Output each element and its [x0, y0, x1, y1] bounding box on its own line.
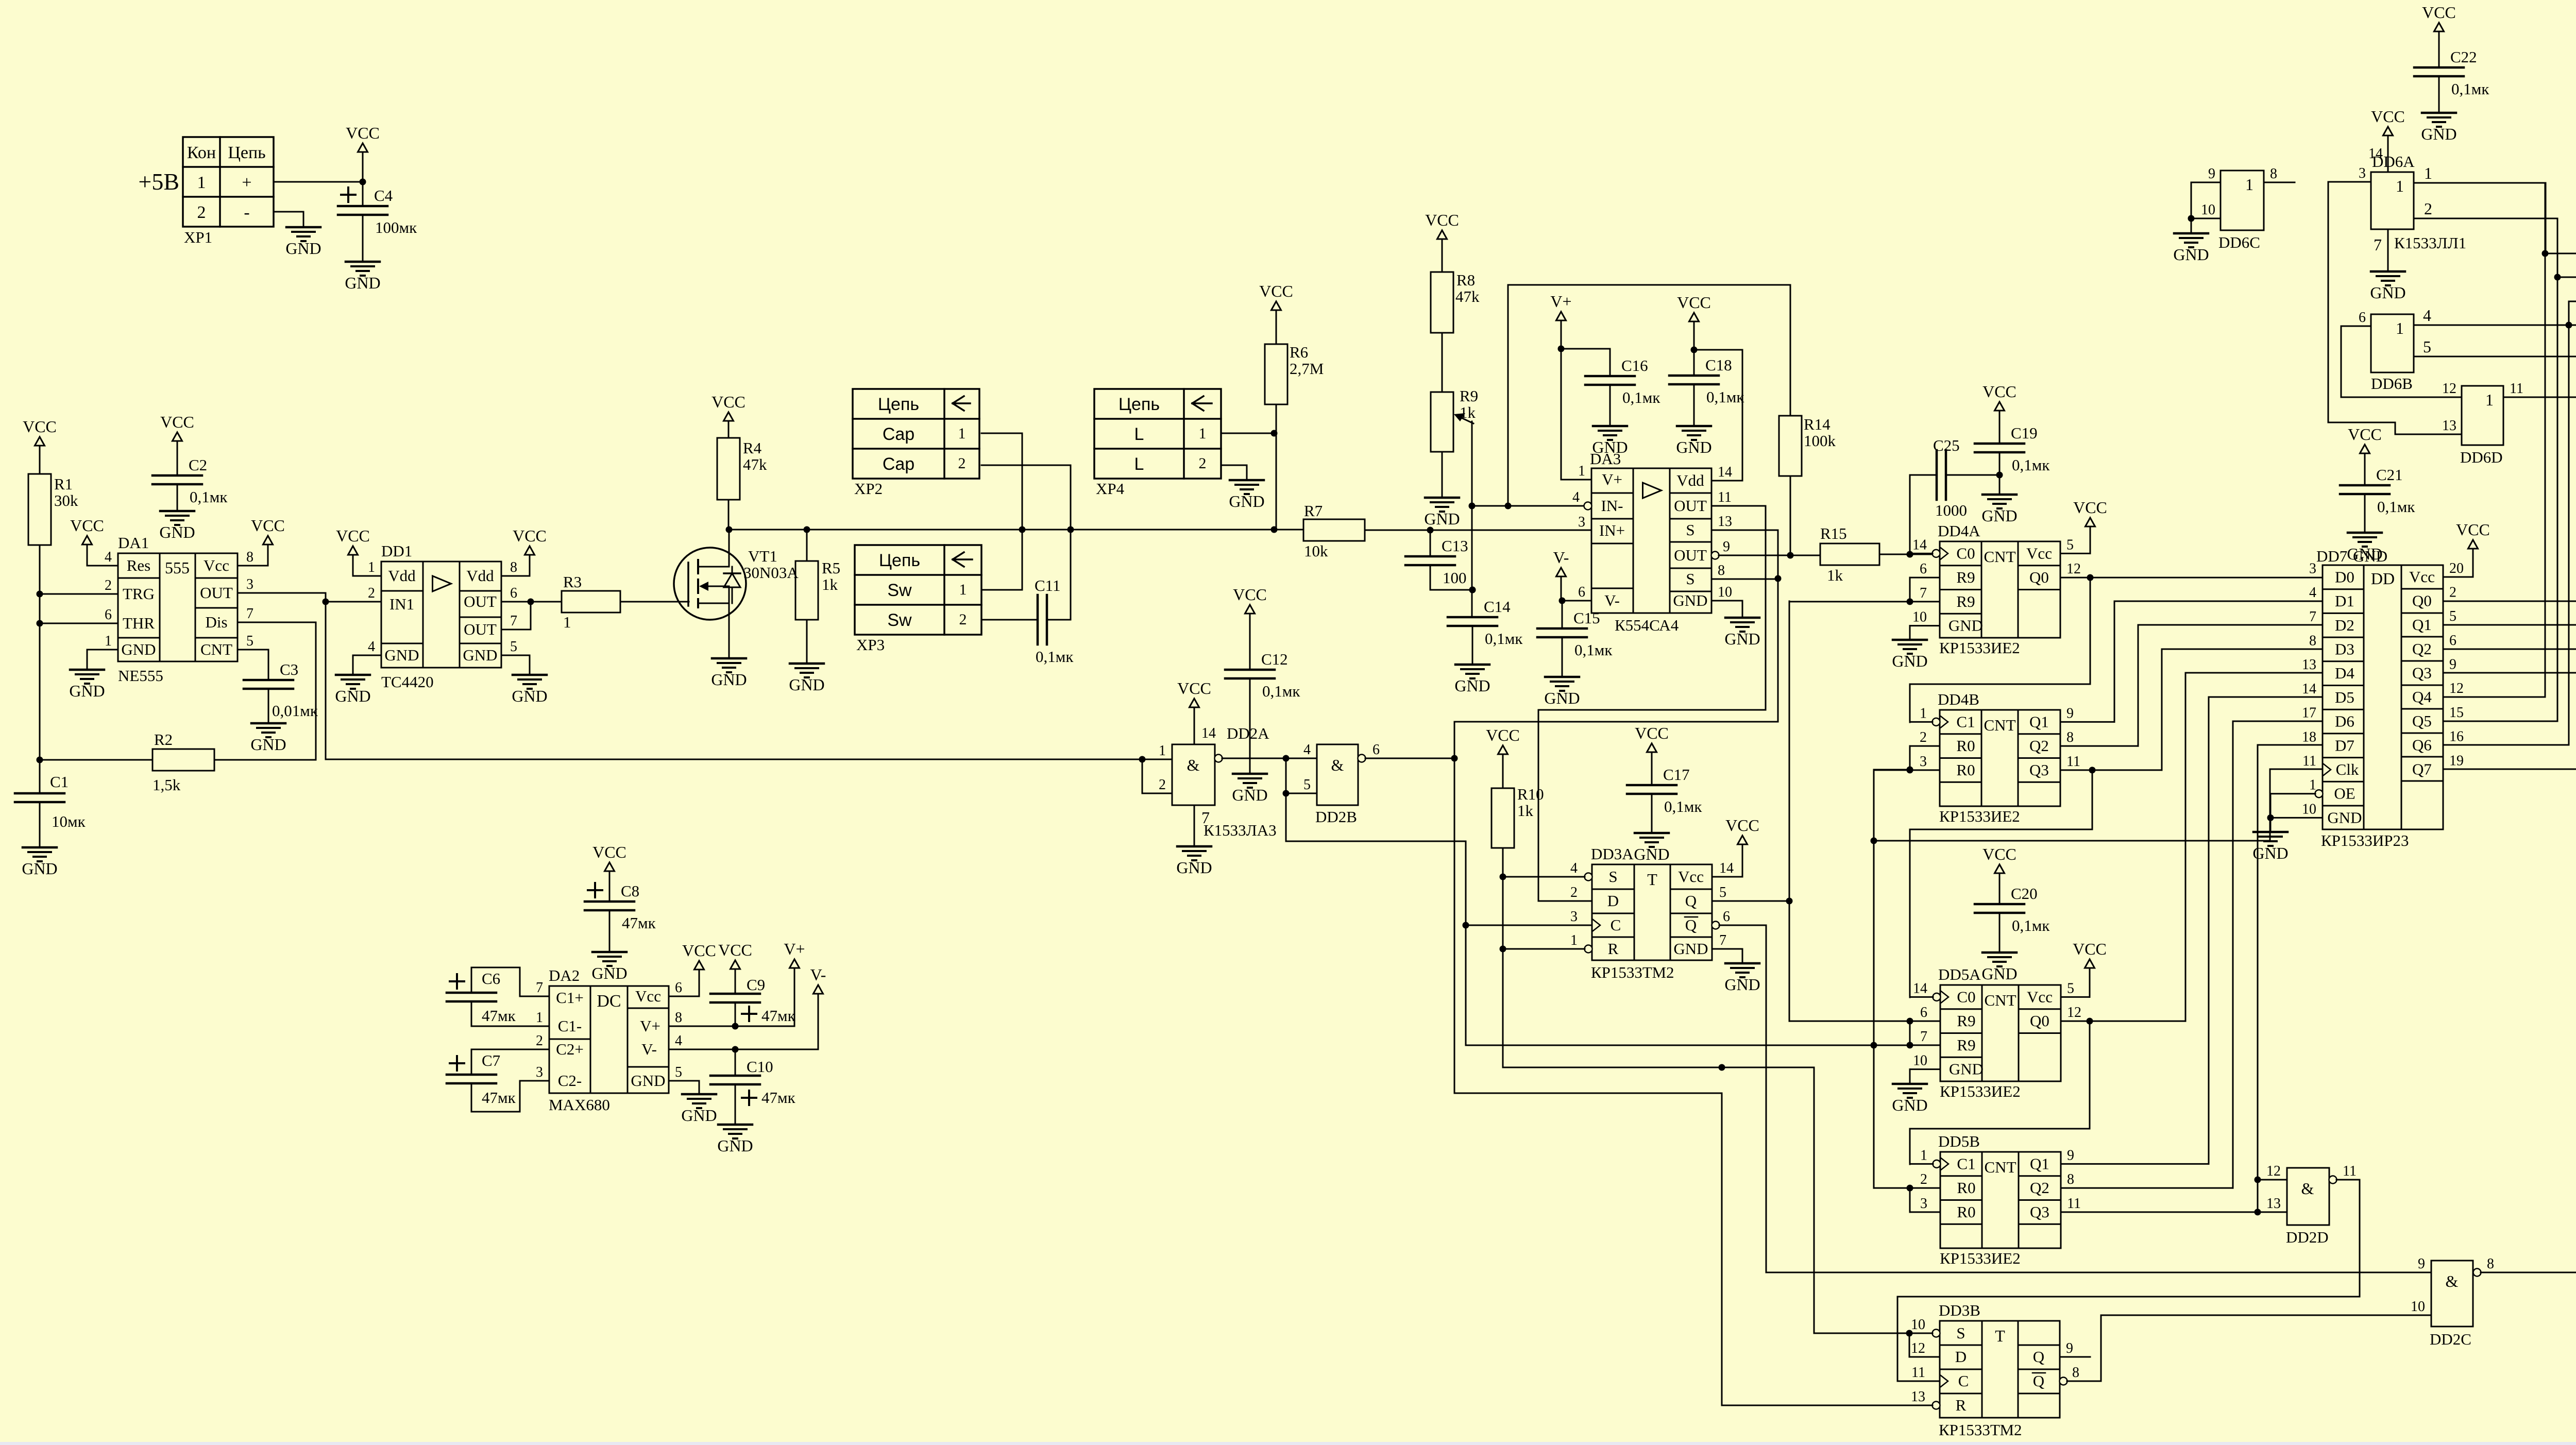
svg-text:DD6D: DD6D — [2460, 448, 2503, 466]
svg-text:R4: R4 — [743, 439, 762, 457]
svg-text:GND: GND — [1634, 845, 1669, 863]
svg-text:C0: C0 — [1957, 988, 1975, 1006]
svg-text:8: 8 — [2066, 729, 2074, 745]
svg-text:2: 2 — [197, 203, 206, 222]
svg-text:8: 8 — [2309, 633, 2316, 649]
svg-text:1: 1 — [1578, 463, 1585, 479]
svg-text:R3: R3 — [563, 573, 582, 591]
svg-text:Vcc: Vcc — [2027, 988, 2053, 1006]
svg-text:6: 6 — [1578, 584, 1585, 600]
svg-text:C14: C14 — [1484, 598, 1511, 616]
svg-text:10мк: 10мк — [52, 812, 86, 830]
svg-text:DC: DC — [597, 992, 621, 1011]
svg-text:4: 4 — [368, 639, 375, 655]
svg-text:0,1мк: 0,1мк — [1262, 682, 1300, 700]
svg-text:R9: R9 — [1956, 568, 1975, 586]
svg-text:4: 4 — [1303, 742, 1311, 758]
svg-text:GND: GND — [22, 859, 57, 878]
svg-text:R1: R1 — [54, 475, 73, 493]
svg-text:VCC: VCC — [1725, 816, 1759, 835]
svg-text:5: 5 — [246, 633, 253, 649]
svg-text:D0: D0 — [2335, 568, 2354, 586]
svg-text:Cap: Cap — [883, 454, 914, 474]
svg-text:10: 10 — [2201, 202, 2215, 218]
svg-text:Q3: Q3 — [2029, 761, 2049, 779]
svg-text:КР1533ИЕ2: КР1533ИЕ2 — [1939, 807, 2020, 825]
svg-text:6: 6 — [2359, 310, 2366, 326]
svg-text:R9: R9 — [1460, 387, 1478, 405]
svg-text:47мк: 47мк — [482, 1007, 516, 1025]
svg-text:GND: GND — [1232, 786, 1267, 804]
svg-text:3: 3 — [1920, 754, 1927, 770]
svg-text:T: T — [1647, 870, 1657, 889]
svg-text:CNT: CNT — [1984, 716, 2016, 734]
svg-text:VCC: VCC — [1233, 585, 1267, 604]
svg-text:К1533ЛА3: К1533ЛА3 — [1204, 821, 1277, 839]
svg-text:47k: 47k — [743, 455, 767, 473]
svg-text:12: 12 — [2266, 1163, 2281, 1179]
svg-text:GND: GND — [69, 682, 105, 700]
svg-text:6: 6 — [510, 585, 517, 601]
svg-text:C19: C19 — [2011, 424, 2038, 442]
svg-text:1: 1 — [105, 633, 112, 649]
svg-text:555: 555 — [165, 558, 190, 577]
svg-text:GND: GND — [250, 735, 286, 754]
svg-text:GND: GND — [1229, 492, 1264, 511]
svg-text:100: 100 — [1443, 569, 1467, 587]
svg-text:0,1мк: 0,1мк — [1574, 641, 1613, 659]
svg-text:GND: GND — [1454, 676, 1490, 695]
svg-text:VCC: VCC — [2073, 498, 2107, 517]
svg-text:12: 12 — [1911, 1340, 1925, 1356]
svg-text:Res: Res — [127, 556, 151, 574]
svg-text:10: 10 — [1718, 584, 1732, 600]
svg-text:47мк: 47мк — [482, 1089, 516, 1107]
svg-text:13: 13 — [2302, 657, 2316, 673]
svg-text:13: 13 — [2266, 1196, 2281, 1212]
svg-text:VCC: VCC — [682, 941, 716, 960]
svg-text:11: 11 — [1718, 489, 1732, 505]
svg-text:R: R — [1608, 940, 1619, 958]
svg-text:DD5B: DD5B — [1938, 1132, 1980, 1150]
svg-text:CNT: CNT — [1985, 1158, 2016, 1176]
svg-text:MAX680: MAX680 — [549, 1096, 610, 1114]
svg-text:&: & — [1331, 756, 1344, 774]
svg-text:2: 2 — [1920, 729, 1927, 745]
svg-text:V+: V+ — [640, 1017, 660, 1035]
svg-text:D3: D3 — [2335, 640, 2354, 658]
svg-text:2: 2 — [536, 1033, 543, 1049]
svg-text:2: 2 — [105, 577, 112, 593]
svg-text:GND: GND — [335, 687, 370, 705]
svg-text:GND: GND — [789, 675, 824, 694]
svg-text:12: 12 — [2066, 561, 2081, 577]
svg-text:VCC: VCC — [2348, 425, 2382, 444]
svg-text:Cap: Cap — [883, 424, 914, 444]
svg-text:DD6C: DD6C — [2218, 233, 2260, 251]
svg-text:Цепь: Цепь — [228, 143, 265, 162]
svg-text:R8: R8 — [1456, 271, 1475, 289]
svg-text:Q2: Q2 — [2412, 640, 2432, 658]
svg-text:3: 3 — [2359, 165, 2366, 181]
svg-text:47k: 47k — [1455, 287, 1480, 305]
svg-text:4: 4 — [1572, 489, 1580, 505]
svg-text:1: 1 — [1920, 705, 1927, 721]
svg-text:GND: GND — [591, 964, 627, 982]
svg-text:DD: DD — [2371, 569, 2395, 588]
svg-text:Vcc: Vcc — [204, 556, 229, 574]
svg-text:GND: GND — [2252, 844, 2288, 862]
svg-text:Q1: Q1 — [2030, 1154, 2049, 1172]
svg-text:D: D — [1607, 892, 1619, 910]
svg-text:VCC: VCC — [1982, 845, 2016, 863]
svg-text:16: 16 — [2449, 729, 2464, 745]
svg-text:C2-: C2- — [558, 1072, 582, 1090]
svg-text:NE555: NE555 — [118, 667, 163, 685]
svg-text:2: 2 — [959, 611, 967, 628]
svg-text:Q0: Q0 — [2029, 568, 2049, 586]
svg-text:IN-: IN- — [1601, 497, 1623, 515]
svg-text:C20: C20 — [2011, 885, 2038, 903]
svg-text:0,01мк: 0,01мк — [272, 702, 318, 720]
svg-text:DD2A: DD2A — [1227, 724, 1269, 742]
svg-text:C13: C13 — [1442, 537, 1468, 555]
svg-text:10: 10 — [1913, 1053, 1927, 1069]
svg-text:C0: C0 — [1956, 544, 1975, 562]
svg-text:C17: C17 — [1663, 766, 1690, 784]
svg-text:L: L — [1134, 454, 1144, 474]
svg-text:IN1: IN1 — [389, 595, 414, 613]
svg-text:GND: GND — [1948, 617, 1983, 635]
svg-text:R9: R9 — [1956, 592, 1975, 610]
svg-text:V-: V- — [641, 1040, 657, 1058]
svg-text:Q1: Q1 — [2029, 712, 2049, 730]
svg-text:VCC: VCC — [2456, 520, 2490, 539]
svg-text:S: S — [1608, 868, 1617, 886]
svg-text:DD1: DD1 — [381, 542, 412, 560]
svg-text:DD5A: DD5A — [1938, 965, 1981, 983]
svg-text:GND: GND — [384, 646, 419, 664]
svg-text:5: 5 — [2066, 537, 2074, 553]
svg-text:0,1мк: 0,1мк — [1664, 797, 1702, 815]
svg-text:12: 12 — [2067, 1005, 2081, 1021]
svg-text:1: 1 — [368, 559, 375, 575]
svg-text:R7: R7 — [1304, 502, 1323, 520]
svg-text:GND: GND — [1892, 652, 1927, 670]
svg-text:100мк: 100мк — [375, 218, 417, 236]
svg-text:VCC: VCC — [1177, 679, 1211, 698]
svg-text:9: 9 — [2067, 1147, 2074, 1163]
svg-text:OUT: OUT — [464, 620, 497, 638]
svg-text:Цепь: Цепь — [878, 395, 919, 414]
svg-text:15: 15 — [2449, 705, 2464, 721]
svg-text:D5: D5 — [2335, 688, 2354, 706]
svg-text:Q5: Q5 — [2412, 712, 2432, 730]
svg-text:C: C — [1611, 916, 1621, 934]
svg-text:D2: D2 — [2335, 616, 2354, 634]
svg-text:VCC: VCC — [70, 516, 104, 535]
svg-text:Q: Q — [1685, 916, 1697, 934]
svg-text:Q0: Q0 — [2412, 591, 2432, 609]
svg-text:R10: R10 — [1517, 785, 1544, 803]
svg-text:7: 7 — [1920, 585, 1927, 601]
svg-text:10: 10 — [1912, 609, 1927, 625]
svg-text:C10: C10 — [747, 1058, 773, 1076]
svg-text:6: 6 — [1372, 742, 1380, 758]
svg-text:Sw: Sw — [887, 610, 912, 630]
svg-text:C12: C12 — [1261, 650, 1288, 668]
svg-text:9: 9 — [2449, 657, 2456, 673]
svg-text:VT1: VT1 — [748, 547, 777, 565]
svg-text:C22: C22 — [2450, 48, 2477, 66]
svg-text:GND: GND — [681, 1106, 717, 1125]
svg-text:Vdd: Vdd — [388, 567, 416, 585]
svg-text:DD7: DD7 — [2316, 547, 2347, 565]
svg-text:14: 14 — [1719, 860, 1734, 876]
svg-text:TRG: TRG — [123, 585, 155, 603]
svg-text:DD3B: DD3B — [1939, 1301, 1980, 1319]
svg-text:DA2: DA2 — [549, 966, 580, 984]
svg-text:КР1533ТМ2: КР1533ТМ2 — [1591, 963, 1674, 981]
svg-text:1: 1 — [1199, 425, 1207, 442]
svg-text:R0: R0 — [1957, 1179, 1975, 1197]
svg-text:C2: C2 — [189, 456, 207, 474]
svg-text:Q: Q — [1685, 892, 1697, 910]
svg-text:C1: C1 — [1956, 712, 1975, 730]
svg-text:1: 1 — [2396, 177, 2404, 195]
svg-text:10: 10 — [2411, 1299, 2425, 1315]
svg-text:GND: GND — [463, 646, 497, 664]
svg-text:1: 1 — [2424, 164, 2432, 182]
svg-text:1k: 1k — [822, 575, 838, 593]
svg-text:К554СА4: К554СА4 — [1615, 616, 1679, 634]
svg-text:L: L — [1134, 424, 1144, 444]
svg-text:DD4B: DD4B — [1938, 690, 1979, 708]
svg-text:C4: C4 — [374, 186, 393, 205]
svg-text:R0: R0 — [1956, 761, 1975, 779]
svg-text:5: 5 — [1303, 777, 1311, 793]
svg-text:GND: GND — [1424, 509, 1460, 528]
svg-text:C: C — [1958, 1372, 1969, 1390]
svg-text:20: 20 — [2449, 560, 2464, 576]
svg-text:Vcc: Vcc — [635, 987, 661, 1005]
svg-text:+: + — [242, 173, 251, 192]
svg-text:&: & — [2446, 1272, 2459, 1290]
svg-text:9: 9 — [2066, 1340, 2073, 1356]
svg-text:GND: GND — [2327, 808, 2362, 826]
svg-text:VCC: VCC — [1635, 724, 1669, 742]
svg-text:GND: GND — [1673, 940, 1708, 958]
svg-text:+5В: +5В — [138, 168, 179, 195]
svg-text:R0: R0 — [1956, 737, 1975, 755]
svg-text:4: 4 — [1570, 860, 1578, 876]
svg-text:11: 11 — [2066, 754, 2080, 770]
svg-text:2: 2 — [1570, 885, 1578, 900]
svg-text:100k: 100k — [1804, 432, 1836, 450]
svg-text:OUT: OUT — [1674, 497, 1707, 515]
svg-text:Q1: Q1 — [2412, 616, 2432, 634]
svg-text:GND: GND — [285, 239, 321, 258]
svg-text:10: 10 — [2302, 801, 2316, 817]
svg-text:3: 3 — [2309, 560, 2316, 576]
svg-text:2: 2 — [1920, 1171, 1927, 1187]
svg-text:2: 2 — [1159, 777, 1166, 793]
svg-text:5: 5 — [510, 639, 517, 655]
svg-text:9: 9 — [1723, 539, 1730, 555]
svg-text:0,1мк: 0,1мк — [2451, 80, 2489, 98]
svg-text:Q4: Q4 — [2412, 688, 2432, 706]
svg-text:VCC: VCC — [336, 526, 370, 545]
svg-text:1: 1 — [2245, 175, 2253, 194]
svg-text:GND: GND — [2347, 545, 2382, 563]
svg-text:4: 4 — [2423, 306, 2431, 325]
svg-text:13: 13 — [2442, 418, 2456, 434]
svg-text:7: 7 — [1719, 932, 1726, 948]
svg-text:8: 8 — [2487, 1256, 2494, 1272]
svg-text:1: 1 — [2309, 777, 2316, 793]
svg-text:V-: V- — [810, 965, 826, 984]
svg-text:0,1мк: 0,1мк — [2377, 498, 2415, 516]
svg-text:13: 13 — [1718, 514, 1732, 530]
svg-text:0,1мк: 0,1мк — [1706, 388, 1744, 406]
svg-text:S: S — [1956, 1324, 1965, 1342]
svg-text:Q2: Q2 — [2029, 737, 2049, 755]
svg-text:VCC: VCC — [2371, 107, 2405, 126]
svg-text:Q0: Q0 — [2030, 1012, 2049, 1030]
svg-text:T: T — [1995, 1327, 2005, 1345]
svg-text:5: 5 — [675, 1064, 682, 1080]
svg-text:47мк: 47мк — [761, 1089, 796, 1107]
svg-text:VCC: VCC — [251, 516, 285, 535]
svg-text:DD3A: DD3A — [1591, 845, 1634, 863]
svg-text:11: 11 — [1911, 1365, 1925, 1381]
svg-text:1: 1 — [563, 613, 571, 631]
svg-text:OUT: OUT — [1674, 546, 1707, 564]
svg-text:C2+: C2+ — [556, 1040, 584, 1058]
svg-text:R2: R2 — [154, 730, 173, 749]
svg-text:&: & — [2301, 1179, 2314, 1198]
svg-text:D4: D4 — [2335, 664, 2354, 682]
svg-text:7: 7 — [1920, 1029, 1927, 1045]
svg-text:R5: R5 — [822, 559, 840, 577]
svg-text:GND: GND — [631, 1072, 665, 1090]
svg-text:1: 1 — [2396, 319, 2404, 337]
svg-text:DD2C: DD2C — [2430, 1330, 2471, 1348]
svg-text:GND: GND — [2173, 245, 2209, 264]
svg-text:R15: R15 — [1820, 524, 1847, 542]
svg-text:30N03A: 30N03A — [743, 564, 799, 582]
svg-text:7: 7 — [246, 606, 253, 622]
svg-text:XP2: XP2 — [854, 480, 883, 498]
svg-text:2: 2 — [2449, 584, 2456, 600]
svg-text:GND: GND — [717, 1136, 753, 1155]
svg-text:11: 11 — [2510, 381, 2523, 397]
svg-text:6: 6 — [1920, 561, 1927, 577]
svg-text:Кон: Кон — [187, 143, 216, 162]
svg-text:3: 3 — [1570, 909, 1578, 925]
svg-text:18: 18 — [2302, 729, 2316, 745]
svg-text:2,7М: 2,7М — [1290, 360, 1324, 378]
svg-text:V-: V- — [1553, 548, 1569, 567]
svg-text:C6: C6 — [482, 970, 500, 988]
svg-text:4: 4 — [675, 1033, 682, 1049]
svg-text:14: 14 — [1913, 980, 1927, 996]
svg-text:OUT: OUT — [464, 592, 497, 610]
svg-text:11: 11 — [2343, 1163, 2357, 1179]
svg-text:7: 7 — [2374, 235, 2382, 254]
svg-text:C1-: C1- — [558, 1017, 582, 1035]
svg-text:11: 11 — [2302, 753, 2316, 769]
svg-text:2: 2 — [1199, 455, 1207, 472]
svg-text:GND: GND — [1949, 1060, 1984, 1078]
svg-text:8: 8 — [246, 549, 253, 565]
svg-text:GND: GND — [2421, 125, 2456, 143]
svg-text:GND: GND — [121, 640, 156, 658]
svg-text:D1: D1 — [2335, 592, 2354, 610]
svg-text:GND: GND — [2370, 283, 2405, 302]
svg-text:0,1мк: 0,1мк — [2012, 916, 2050, 934]
svg-text:8: 8 — [1718, 563, 1725, 579]
svg-text:VCC: VCC — [592, 843, 626, 861]
svg-text:3: 3 — [1578, 514, 1585, 530]
svg-text:GND: GND — [1724, 630, 1760, 648]
svg-text:Vdd: Vdd — [466, 567, 494, 585]
svg-text:VCC: VCC — [513, 526, 547, 545]
svg-text:КР1533ИР23: КР1533ИР23 — [2321, 831, 2409, 849]
svg-text:7: 7 — [2309, 609, 2316, 625]
svg-text:17: 17 — [2302, 705, 2316, 721]
svg-text:GND: GND — [345, 274, 380, 292]
svg-text:4: 4 — [2309, 585, 2316, 601]
svg-text:КР1533ТМ2: КР1533ТМ2 — [1939, 1421, 2022, 1439]
svg-text:TC4420: TC4420 — [381, 673, 434, 691]
svg-text:11: 11 — [2067, 1196, 2081, 1212]
svg-text:6: 6 — [675, 980, 682, 996]
svg-text:THR: THR — [123, 614, 155, 632]
svg-text:1: 1 — [958, 425, 966, 442]
svg-text:R: R — [1956, 1396, 1967, 1414]
svg-text:C15: C15 — [1573, 609, 1600, 627]
svg-text:1000: 1000 — [1935, 501, 1967, 519]
svg-text:GND: GND — [1724, 975, 1760, 994]
svg-text:1k: 1k — [1827, 566, 1843, 584]
svg-text:9: 9 — [2208, 166, 2215, 182]
svg-text:GND: GND — [1676, 438, 1711, 456]
svg-text:XP3: XP3 — [856, 636, 885, 654]
svg-text:-: - — [244, 203, 249, 222]
svg-text:2: 2 — [368, 585, 375, 601]
svg-text:8: 8 — [510, 559, 517, 575]
svg-text:C11: C11 — [1035, 576, 1061, 594]
svg-text:R9: R9 — [1957, 1012, 1975, 1030]
svg-text:КР1533ИЕ2: КР1533ИЕ2 — [1939, 639, 2020, 657]
svg-text:V+: V+ — [1602, 470, 1622, 488]
svg-text:GND: GND — [1981, 506, 2017, 525]
svg-text:30k: 30k — [54, 491, 78, 509]
svg-text:XP1: XP1 — [184, 228, 212, 246]
svg-text:C21: C21 — [2376, 466, 2403, 484]
svg-text:К1533ЛЛ1: К1533ЛЛ1 — [2394, 234, 2466, 252]
svg-text:19: 19 — [2449, 753, 2464, 769]
svg-text:R9: R9 — [1957, 1036, 1975, 1054]
svg-text:GND: GND — [711, 670, 747, 689]
svg-text:0,1мк: 0,1мк — [1036, 648, 1074, 666]
svg-text:GND: GND — [1673, 591, 1707, 609]
svg-text:0,1мк: 0,1мк — [2012, 456, 2050, 474]
svg-text:8: 8 — [2067, 1171, 2074, 1187]
svg-text:R0: R0 — [1957, 1203, 1975, 1221]
svg-text:3: 3 — [246, 576, 253, 592]
